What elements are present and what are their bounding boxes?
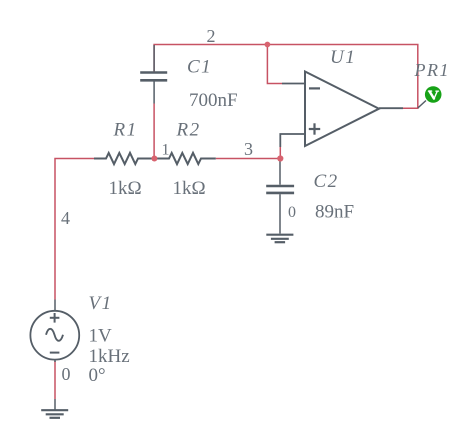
svg-text:89nF: 89nF [315, 202, 354, 223]
svg-text:4: 4 [61, 208, 70, 228]
svg-text:0: 0 [288, 204, 296, 221]
svg-text:R1: R1 [113, 120, 138, 141]
svg-text:2: 2 [207, 26, 216, 46]
svg-text:R2: R2 [176, 120, 201, 141]
svg-text:U1: U1 [330, 47, 356, 68]
svg-text:1: 1 [162, 142, 170, 159]
svg-text:3: 3 [244, 139, 253, 159]
svg-text:PR1: PR1 [414, 60, 451, 80]
svg-text:1kΩ: 1kΩ [173, 178, 206, 199]
svg-text:V1: V1 [89, 293, 113, 314]
svg-text:C1: C1 [187, 57, 212, 78]
svg-text:C2: C2 [314, 171, 339, 192]
svg-text:0: 0 [62, 364, 71, 384]
svg-text:700nF: 700nF [189, 90, 238, 111]
svg-text:1kHz: 1kHz [89, 346, 130, 367]
svg-text:1kΩ: 1kΩ [109, 178, 142, 199]
svg-text:0°: 0° [89, 365, 106, 386]
svg-text:1V: 1V [89, 326, 113, 347]
